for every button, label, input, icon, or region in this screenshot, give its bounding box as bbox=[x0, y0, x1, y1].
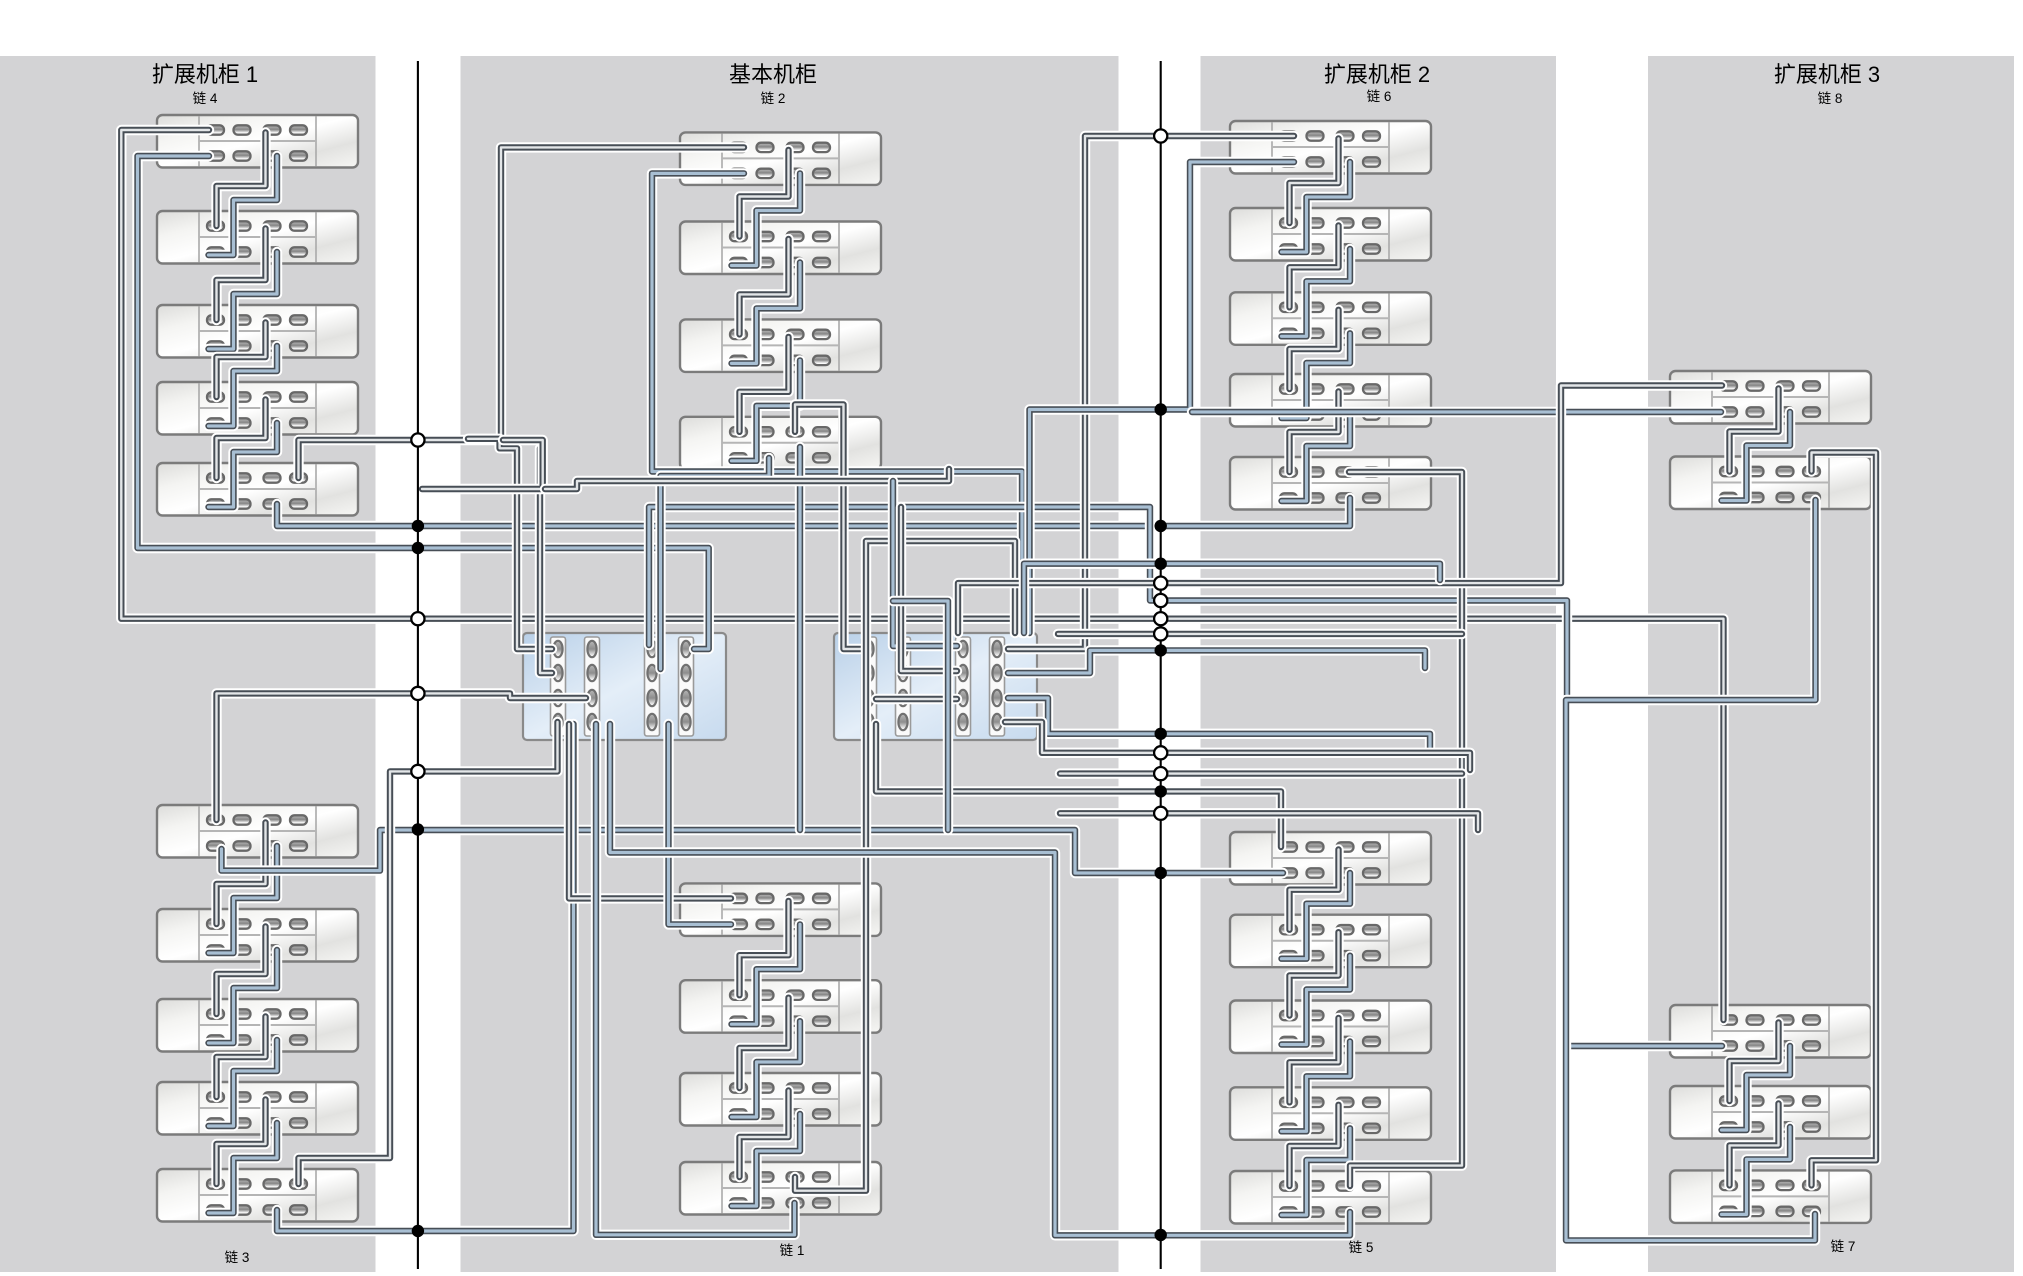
wire chain6 D3-D4 blue link bbox=[1282, 333, 1351, 418]
node left bus y=693.4 open bbox=[411, 687, 424, 700]
rack band: expansion cabinet 1 bbox=[0, 56, 376, 1272]
node right bus y=752.8 open bbox=[1154, 746, 1167, 759]
svg-text:链 2: 链 2 bbox=[761, 91, 786, 106]
node right bus y=563.7 filled bbox=[1155, 558, 1167, 570]
svg-text:基本机柜: 基本机柜 bbox=[729, 62, 817, 87]
disk shelf B3 (cab1 bottom) bbox=[157, 999, 358, 1052]
wire chain5 F1-F2 dark link bbox=[1290, 850, 1339, 930]
node right bus y=633.9 open bbox=[1154, 627, 1167, 640]
wire chain2 C2-C3 blue link bbox=[732, 263, 801, 364]
wire chain2 C3-C4 blue link bbox=[732, 360, 801, 460]
wire long S1 blue to controller1 S4 (track y548) bbox=[138, 156, 709, 649]
node right bus y=600.5 open bbox=[1154, 594, 1167, 607]
wire chain7 H2-H3 blue link bbox=[1722, 1127, 1791, 1214]
node right bus y=733.8 filled bbox=[1155, 728, 1167, 740]
wire chain1 E2-E3 dark link bbox=[740, 998, 789, 1088]
disk shelf D5 (cab2 top) bbox=[1230, 457, 1431, 510]
wire chain6 D1-D2 dark link bbox=[1290, 139, 1339, 224]
disk shelf E2 (base bottom) bbox=[680, 980, 881, 1032]
wire chain4 S1-S2 dark link bbox=[217, 133, 266, 227]
wire C4 row2 blue to controller1 S3P2 bbox=[661, 458, 770, 669]
node left bus y=829.5 filled bbox=[412, 823, 424, 835]
disk shelf S2 (cab1 top) bbox=[157, 211, 358, 264]
wire chain5 F4-F5 dark link bbox=[1290, 1105, 1339, 1186]
wire controller2 S3P1 feed blue bbox=[893, 481, 957, 646]
disk shelf F4 (cab2 bottom) bbox=[1230, 1087, 1431, 1140]
disk shelf H2 (cab3 bottom) bbox=[1670, 1086, 1871, 1139]
wire chain6 D3-D4 dark link bbox=[1290, 310, 1339, 389]
node right bus y=873 filled bbox=[1155, 867, 1167, 879]
wire chain5 F1-F2 blue link bbox=[1282, 873, 1351, 959]
wire chain5 F2-F3 dark link bbox=[1290, 932, 1339, 1015]
wire chain3 B1-B2 blue link bbox=[209, 846, 278, 953]
wire chain4 S4-S5 blue link bbox=[209, 423, 278, 507]
svg-text:链 6: 链 6 bbox=[1367, 89, 1392, 104]
wire chain3 B1-B2 dark link bbox=[217, 823, 266, 925]
wire chain3 B2-B3 dark link bbox=[217, 927, 266, 1015]
node left bus y=548 filled bbox=[412, 542, 424, 554]
wire chain1 E3-E4 dark link bbox=[740, 1091, 789, 1178]
wire track y813 dark bbox=[1060, 813, 1478, 830]
wire E1 row1 feed dark bbox=[569, 724, 731, 898]
wire C1 row2 blue to controller2 (track y471) bbox=[652, 173, 1022, 633]
wire chain4 S2-S3 blue link bbox=[209, 252, 278, 349]
wire B5 bracket dark (track y771) bbox=[299, 722, 558, 1184]
svg-text:扩展机柜 2: 扩展机柜 2 bbox=[1324, 62, 1430, 87]
wire B5 row2 blue to controller1 (track y1231) bbox=[277, 724, 574, 1231]
wire controller1 upper stub dark bbox=[422, 440, 543, 489]
wire chain8 G1-G2 blue link bbox=[1722, 412, 1791, 501]
wire E1 row2 feed blue bbox=[669, 724, 732, 924]
wire F1 row1 feed dark (track y791) bbox=[876, 724, 1281, 847]
wire controller1 S3P1 to H1 blue (tracks y507/y600) bbox=[649, 507, 1722, 1046]
wire chain4 S3-S4 blue link bbox=[209, 346, 278, 426]
rack band: base cabinet bbox=[461, 56, 1119, 1272]
node left bus y=771.4 open bbox=[411, 765, 424, 778]
wire chain2 C3-C4 dark link bbox=[740, 337, 789, 432]
disk shelf H3 (cab3 bottom) bbox=[1670, 1170, 1871, 1223]
wire controller2 S3P2 feed dark bbox=[901, 507, 957, 671]
wire C4 row2 p3 blue drop bbox=[795, 447, 805, 830]
disk shelf S3 (cab1 top) bbox=[157, 305, 358, 358]
wire chain6 D2-D3 blue link bbox=[1282, 249, 1351, 336]
svg-text:链 3: 链 3 bbox=[225, 1250, 250, 1265]
svg-text:链 8: 链 8 bbox=[1818, 91, 1843, 106]
wire D1 row1 feed dark (track y136) bbox=[1008, 136, 1294, 649]
wire track y633 dark bbox=[1058, 629, 1462, 639]
wire track y773 dark bbox=[1060, 768, 1462, 778]
node left bus y=440 open bbox=[411, 433, 424, 446]
disk shelf S4 (cab1 top) bbox=[157, 382, 358, 435]
wire chain3 B4-B5 dark link bbox=[217, 1100, 266, 1185]
wire chain6 D1-D2 blue link bbox=[1282, 162, 1351, 252]
wire B1-F1 row2 blue (track y831) bbox=[222, 830, 1284, 873]
wire chain6 D4-D5 blue link bbox=[1282, 415, 1351, 501]
wire chain2 C1-C2 blue link bbox=[732, 173, 801, 265]
wire chain8 G1-G2 dark link bbox=[1730, 389, 1779, 472]
disk shelf E3 (base bottom) bbox=[680, 1073, 881, 1126]
wire controller2 S3P3 feed dark bbox=[876, 694, 957, 704]
disk shelf F2 (cab2 bottom) bbox=[1230, 915, 1431, 968]
disk shelf D3 (cab2 top) bbox=[1230, 292, 1431, 345]
wire G1 row1 feed dark (track y583) bbox=[958, 386, 1722, 634]
wire long S5-D5 blue (track y526) bbox=[277, 498, 1350, 526]
wire track y650 blue bbox=[1008, 650, 1425, 673]
wire chain7 H2-H3 dark link bbox=[1730, 1104, 1779, 1186]
disk shelf D4 (cab2 top) bbox=[1230, 374, 1431, 427]
svg-text:链 7: 链 7 bbox=[1831, 1239, 1856, 1254]
wire chain5 F3-F4 blue link bbox=[1282, 1042, 1351, 1132]
wire track y733 blue bbox=[1008, 698, 1430, 750]
wire chain3 B4-B5 blue link bbox=[209, 1123, 278, 1213]
disk shelf S5 (cab1 top) bbox=[157, 463, 358, 516]
wire chain6 D4-D5 dark link bbox=[1290, 392, 1339, 473]
disk shelf B4 (cab1 bottom) bbox=[157, 1082, 358, 1135]
wire G2-H3 blue link bbox=[1566, 500, 1816, 1240]
disk shelf B1 (cab1 bottom) bbox=[157, 805, 358, 858]
wire chain5 F4-F5 blue link bbox=[1282, 1128, 1351, 1215]
wire E4 row1 dark to controller2 bbox=[795, 541, 1015, 1191]
controller 2 bbox=[834, 633, 1037, 740]
svg-text:链 4: 链 4 bbox=[193, 91, 218, 106]
wire D1 row2 feed blue (track y409) bbox=[1030, 162, 1295, 633]
disk shelf F3 (cab2 bottom) bbox=[1230, 1001, 1431, 1054]
disk shelf F1 (cab2 bottom) bbox=[1230, 832, 1431, 885]
wire upper stub dark 2 bbox=[545, 469, 949, 489]
wire G2-H3 dark link bbox=[1812, 453, 1877, 1186]
wire chain3 B3-B4 dark link bbox=[217, 1017, 266, 1098]
controller 1 bbox=[523, 633, 726, 740]
disk shelf D2 (cab2 top) bbox=[1230, 208, 1431, 261]
disk shelf C1 (base top) bbox=[680, 132, 881, 185]
wire track y752 dark bbox=[1005, 722, 1470, 770]
node left bus y=526 filled bbox=[412, 520, 424, 532]
wire chain5 F2-F3 blue link bbox=[1282, 956, 1351, 1045]
node right bus y=618.7 open bbox=[1154, 612, 1167, 625]
node right bus y=1235 filled bbox=[1155, 1229, 1167, 1241]
disk shelf G2 (cab3 top) bbox=[1670, 457, 1871, 510]
wire chain1 E1-E2 blue link bbox=[732, 924, 801, 1024]
wire chain4 S1-S2 blue link bbox=[209, 156, 278, 255]
rack band: expansion cabinet 3 bbox=[1648, 56, 2014, 1272]
wire controller1 S1P2 feed dark bbox=[540, 448, 552, 673]
rack boundary line right bbox=[1160, 61, 1162, 1269]
node right bus y=409.5 filled bbox=[1155, 403, 1167, 415]
wire chain1 E2-E3 blue link bbox=[732, 1021, 801, 1117]
wire chain4 S2-S3 dark link bbox=[217, 229, 266, 321]
node right bus y=773.6 open bbox=[1154, 767, 1167, 780]
svg-text:扩展机柜 3: 扩展机柜 3 bbox=[1774, 62, 1880, 87]
node right bus y=136 open bbox=[1154, 129, 1167, 142]
node left bus y=1231 filled bbox=[412, 1225, 424, 1237]
wire chain4 S3-S4 dark link bbox=[217, 323, 266, 398]
node right bus y=813.3 open bbox=[1154, 807, 1167, 820]
disk shelf H1 (cab3 bottom) bbox=[1670, 1005, 1871, 1058]
wire controller1 S1P1 feed dark bbox=[468, 439, 552, 649]
wire chain7 H1-H2 blue link bbox=[1722, 1046, 1791, 1130]
disk shelf S1 (cab1 top) bbox=[157, 115, 358, 168]
disk shelf E1 (base bottom) bbox=[680, 883, 881, 936]
wire B1 row1 feed dark (track y693) bbox=[217, 693, 587, 820]
node right bus y=791.4 filled bbox=[1155, 785, 1167, 797]
wire chain1 E1-E2 dark link bbox=[740, 901, 789, 995]
disk shelf G1 (cab3 top) bbox=[1670, 371, 1871, 424]
wire track y563 blue bbox=[1024, 564, 1440, 633]
node left bus y=618.7 open bbox=[411, 612, 424, 625]
wire D5-F5 dark right link bbox=[1349, 472, 1462, 1186]
disk shelf B2 (cab1 bottom) bbox=[157, 909, 358, 962]
node right bus y=583.1 open bbox=[1154, 577, 1167, 590]
disk shelf E4 (base bottom) bbox=[680, 1162, 881, 1215]
wire chain7 H1-H2 dark link bbox=[1730, 1023, 1779, 1102]
wire E4 row2 blue to controller1 (track y1235) bbox=[596, 724, 795, 1235]
svg-text:扩展机柜 1: 扩展机柜 1 bbox=[152, 62, 258, 87]
disk shelf C2 (base top) bbox=[680, 222, 881, 275]
svg-text:链 5: 链 5 bbox=[1349, 1240, 1374, 1255]
disk shelf B5 (cab1 bottom) bbox=[157, 1169, 358, 1222]
rack band: expansion cabinet 2 bbox=[1201, 56, 1557, 1272]
svg-text:链 1: 链 1 bbox=[780, 1243, 805, 1258]
disk shelf F5 (cab2 bottom) bbox=[1230, 1171, 1431, 1224]
wire chain2 C1-C2 dark link bbox=[740, 150, 789, 237]
wire long S5-C1 dark (track y440) bbox=[299, 147, 745, 478]
wire chain3 B3-B4 blue link bbox=[209, 1040, 278, 1126]
disk shelf C3 (base top) bbox=[680, 319, 881, 372]
wire chain6 D2-D3 dark link bbox=[1290, 226, 1339, 308]
wire long S1-H1 dark (track y618) bbox=[121, 130, 1723, 1020]
node right bus y=526 filled bbox=[1155, 520, 1167, 532]
wire C4 bracket dark from controller2 S1P1 bbox=[795, 405, 861, 650]
wire chain3 B2-B3 blue link bbox=[209, 950, 278, 1043]
wire chain2 C2-C3 dark link bbox=[740, 239, 789, 334]
wire chain5 F3-F4 dark link bbox=[1290, 1018, 1339, 1102]
wire chain1 E3-E4 blue link bbox=[732, 1114, 801, 1206]
wire controller2 left riser blue bbox=[893, 601, 948, 830]
wire G1 row2 feed blue branch bbox=[1192, 407, 1721, 417]
disk shelf D1 (cab2 top) bbox=[1230, 121, 1431, 174]
wire F5 row2 blue to controller1 bbox=[610, 724, 1350, 1235]
rack boundary line left bbox=[417, 61, 419, 1269]
disk shelf C4 (base top) bbox=[680, 417, 881, 470]
node right bus y=650.4 filled bbox=[1155, 644, 1167, 656]
wire chain4 S4-S5 dark link bbox=[217, 400, 266, 479]
